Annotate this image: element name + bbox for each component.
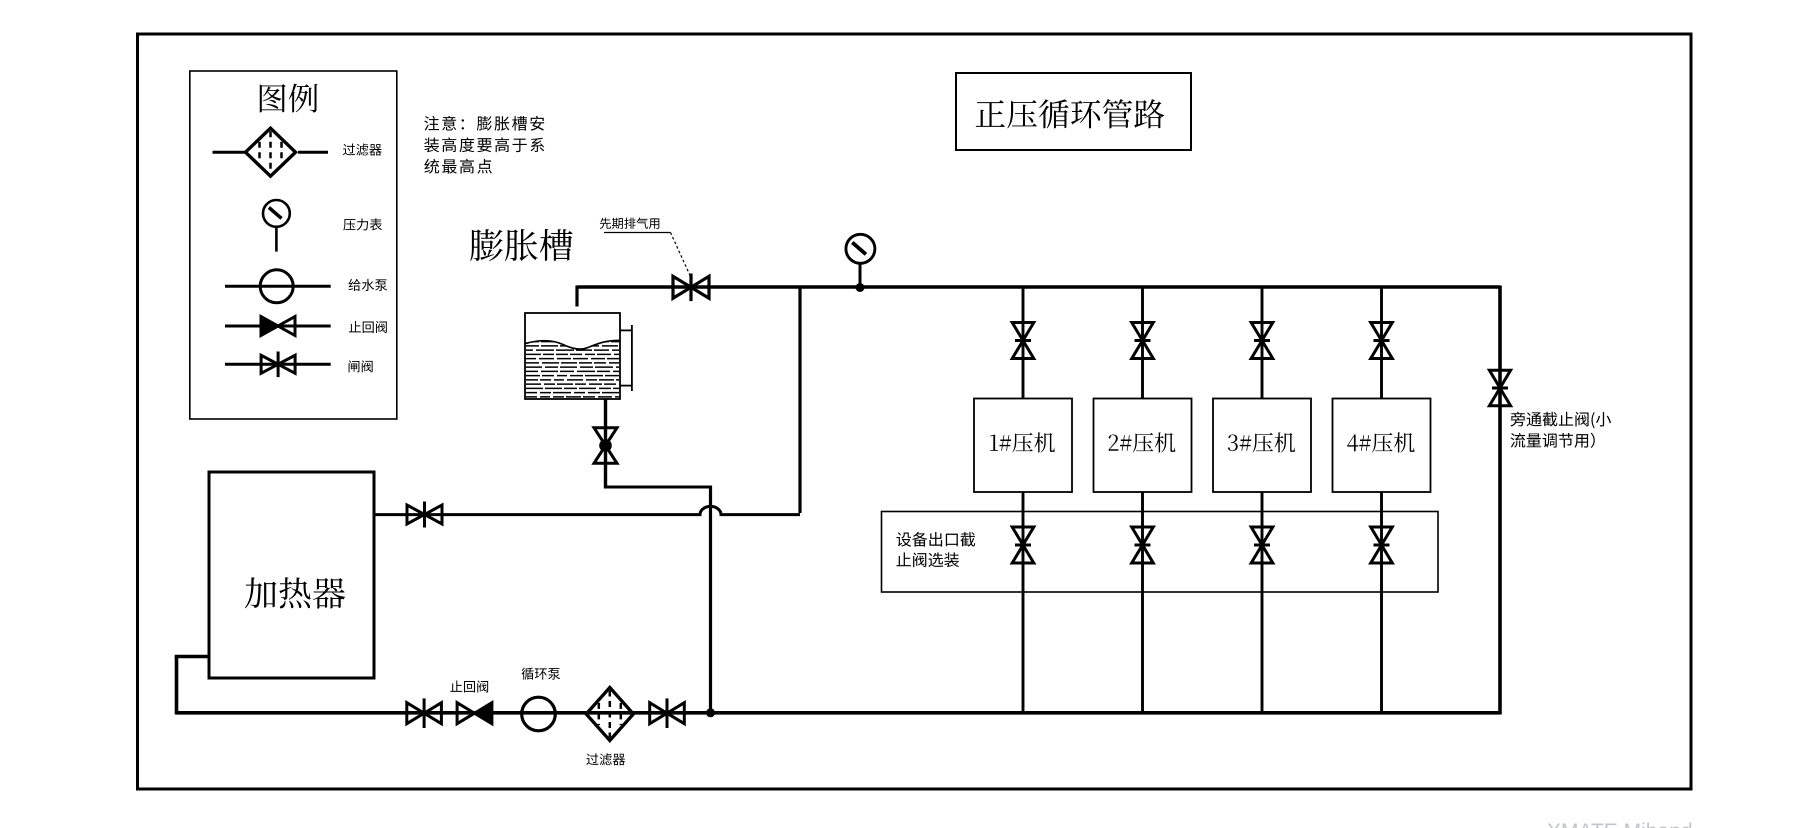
label 循环泵 — [522, 668, 561, 680]
pipe left riser — [175, 657, 179, 715]
note line3 统最高点 — [424, 159, 491, 174]
branch 1 pipe lower — [1022, 492, 1025, 713]
branch 3 outlet gate valve — [1251, 527, 1273, 563]
gate valve right of filter — [650, 698, 685, 728]
legend label 闸阀 — [349, 360, 373, 372]
label 1#压机 — [990, 432, 1055, 452]
legend label 过滤器 — [343, 144, 382, 156]
legend pump symbol — [225, 270, 331, 303]
label 止阀选装 — [896, 552, 959, 567]
pipe bottom return — [177, 711, 1501, 715]
legend title 图例 — [260, 84, 318, 113]
note line2 装高度要高于系 — [424, 137, 544, 152]
gauge junction dot — [856, 283, 865, 292]
branch 3 inlet gate valve — [1251, 323, 1273, 359]
pipe tank inlet stub — [575, 286, 578, 307]
legend label 压力表 — [343, 218, 382, 230]
pipe riser x800 — [798, 287, 801, 513]
pipe top header — [577, 285, 1500, 289]
compressor box 1 — [974, 399, 1072, 493]
label 旁通截止阀(小 — [1510, 412, 1611, 429]
gate valve heater outlet — [407, 502, 442, 528]
branch 4 pipe lower — [1380, 492, 1383, 713]
legend pressure-gauge symbol — [263, 200, 290, 252]
branch 2 inlet gate valve — [1132, 323, 1154, 359]
legend label 给水泵 — [349, 279, 388, 291]
title 正压循环管路 — [976, 99, 1165, 128]
branch 1 outlet gate valve — [1012, 527, 1034, 563]
compressor box 3 — [1213, 399, 1311, 493]
label 4#压机 — [1347, 432, 1414, 452]
label 膨胀槽 — [470, 229, 572, 261]
leader line to vent valve — [604, 233, 691, 277]
branch 4 pipe upper — [1380, 287, 1383, 399]
vent gate valve on header — [673, 274, 709, 302]
label 设备出口截 — [896, 532, 975, 547]
pipe right riser (bypass) — [1498, 286, 1502, 715]
tank level gauge glass — [620, 325, 632, 391]
valve under tank (globe) — [594, 428, 617, 464]
pressure gauge — [846, 234, 875, 287]
bypass gate valve — [1489, 370, 1510, 405]
pipe drop x711 to bottom — [709, 486, 712, 713]
label 加热器 — [245, 577, 345, 608]
legend check-valve symbol — [225, 317, 331, 336]
label 2#压机 — [1109, 432, 1176, 452]
legend filter symbol — [213, 128, 329, 176]
compressor box 4 — [1333, 399, 1431, 493]
compressor box 2 — [1094, 399, 1192, 493]
legend box — [190, 71, 397, 419]
branch 3 pipe lower — [1261, 492, 1264, 713]
pipe tank outlet horizontal — [606, 486, 711, 489]
branch 4 inlet gate valve — [1371, 323, 1393, 359]
expansion tank with water level — [525, 313, 620, 399]
branch 4 outlet gate valve — [1371, 527, 1393, 563]
filter bottom — [586, 688, 633, 741]
label 先期排气用 — [600, 218, 660, 229]
pipe tank outlet down — [604, 399, 607, 489]
legend label 止回阀 — [349, 321, 387, 333]
branch 2 pipe lower — [1141, 492, 1144, 713]
optional outlet-valve box — [882, 512, 1439, 593]
outer border frame — [138, 34, 1692, 789]
junction dot bottom x711 — [706, 708, 715, 717]
gate valve bottom left — [407, 698, 442, 728]
branch 2 outlet gate valve — [1132, 527, 1154, 563]
label 3#压机 — [1228, 432, 1295, 452]
label 流量调节用） — [1511, 433, 1595, 448]
title box — [956, 73, 1191, 150]
svg-text:XMATE Mihand: XMATE Mihand — [1547, 820, 1693, 828]
pipe heater outlet with hop over crossing — [374, 506, 800, 514]
heater box — [209, 472, 374, 678]
branch 1 pipe upper — [1022, 287, 1025, 399]
check valve bottom — [457, 703, 492, 724]
label 过滤器 (bottom) — [586, 753, 625, 765]
branch 1 inlet gate valve — [1012, 323, 1034, 359]
pipe heater left stub — [175, 655, 209, 659]
branch 3 pipe upper — [1261, 287, 1264, 399]
legend gate-valve symbol — [225, 352, 331, 378]
branch 2 pipe upper — [1141, 287, 1144, 399]
circulation pump — [522, 697, 556, 731]
label 止回阀 (bottom) — [450, 680, 488, 692]
note line1 注意：膨胀槽安 — [424, 116, 544, 131]
